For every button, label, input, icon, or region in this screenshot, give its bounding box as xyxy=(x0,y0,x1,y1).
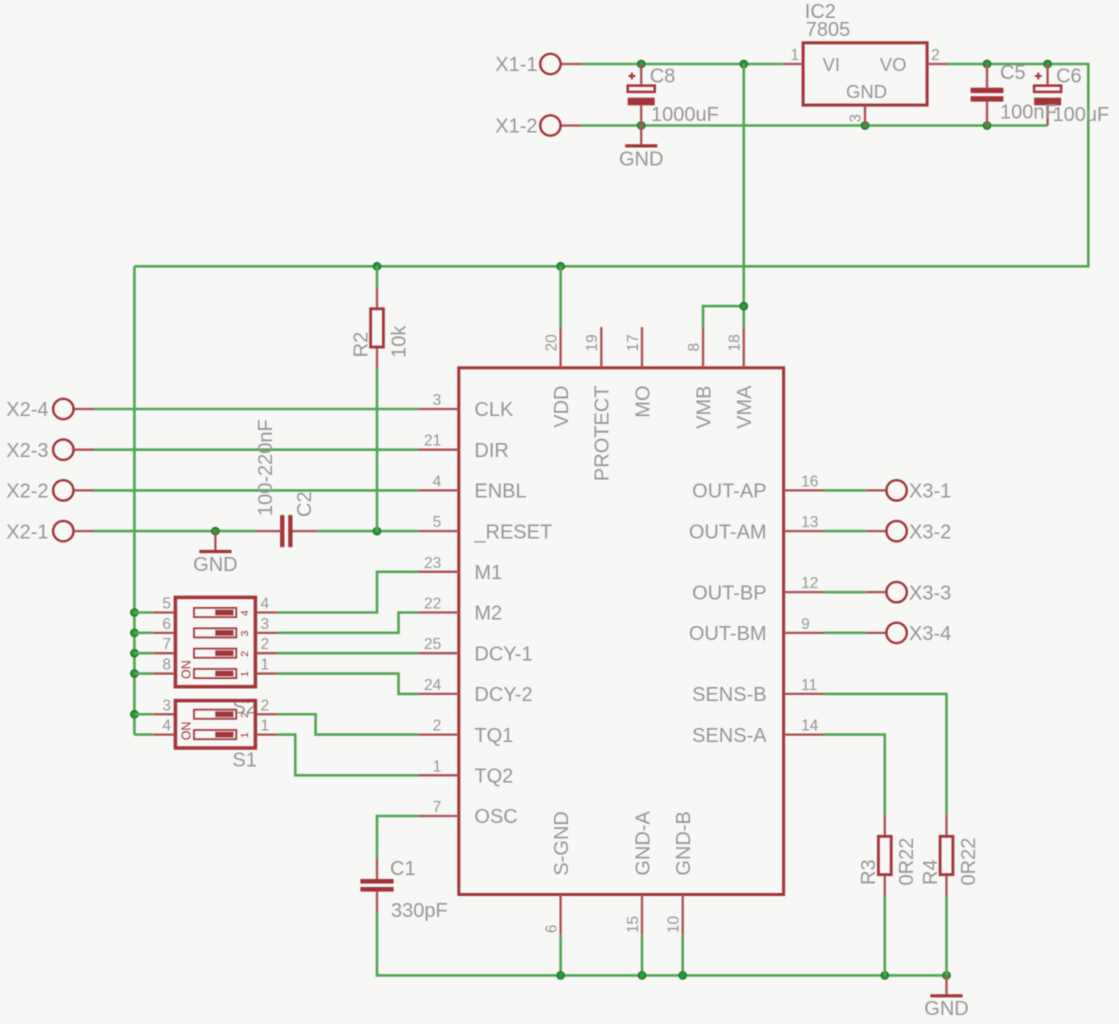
svg-text:21: 21 xyxy=(424,433,441,450)
svg-text:OUT-AM: OUT-AM xyxy=(689,521,767,543)
wire SENS-B pin 11 to R4 top xyxy=(824,694,946,815)
pin 8 VMB xyxy=(702,327,704,368)
svg-text:3: 3 xyxy=(239,630,251,636)
capacitor C1 330pF xyxy=(360,858,447,922)
svg-text:16: 16 xyxy=(801,473,818,490)
svg-text:C8: C8 xyxy=(650,66,676,88)
pin 5 _RESET xyxy=(418,530,459,532)
connector pin X3-1 xyxy=(866,480,951,502)
wire OSC pin 7 to C1 top xyxy=(377,816,418,858)
capacitor C2 100-220nF (series in _RESET line) xyxy=(255,419,317,547)
svg-text:C5: C5 xyxy=(1000,62,1026,84)
connector pin X2-2 xyxy=(6,480,94,502)
svg-text:1000uF: 1000uF xyxy=(651,104,719,126)
svg-text:0R22: 0R22 xyxy=(958,838,980,886)
svg-text:19: 19 xyxy=(584,334,601,351)
svg-text:1: 1 xyxy=(433,758,442,775)
pin 23 M1 xyxy=(418,571,459,573)
svg-text:ENBL: ENBL xyxy=(474,481,526,503)
svg-text:VDD: VDD xyxy=(551,386,573,428)
ground symbol at C2/X2-1 xyxy=(193,531,237,576)
S2 left pin 8 xyxy=(153,672,173,674)
svg-text:X3-4: X3-4 xyxy=(909,623,951,645)
svg-text:CLK: CLK xyxy=(474,399,514,421)
svg-text:M2: M2 xyxy=(474,603,502,625)
svg-text:C6: C6 xyxy=(1056,66,1082,88)
svg-text:ON: ON xyxy=(180,722,194,741)
svg-text:C1: C1 xyxy=(390,858,416,880)
svg-text:M1: M1 xyxy=(474,562,502,584)
svg-text:3: 3 xyxy=(162,697,171,714)
S2 right pin 4 xyxy=(257,611,277,613)
S1 switch element 1 xyxy=(194,730,236,739)
svg-text:100uF: 100uF xyxy=(1053,104,1110,126)
svg-text:VO: VO xyxy=(880,54,907,75)
svg-text:GND: GND xyxy=(846,81,887,102)
svg-text:1: 1 xyxy=(261,657,270,674)
svg-text:1: 1 xyxy=(239,732,251,738)
wire GND net top: X1-2 across to C6 bottom xyxy=(581,122,1048,129)
capacitor C6 100uF (polarized) xyxy=(1034,64,1109,126)
svg-text:C2: C2 xyxy=(294,491,316,517)
svg-text:X3-1: X3-1 xyxy=(909,481,951,503)
S2 left pin 6 xyxy=(153,632,173,634)
pin 14 SENS-A xyxy=(784,733,825,735)
svg-text:X1-2: X1-2 xyxy=(495,116,537,138)
S1 right pin 2 xyxy=(257,713,277,715)
DIP switch S2 (4 position) xyxy=(153,596,277,719)
svg-text:OUT-AP: OUT-AP xyxy=(692,481,766,503)
svg-text:2: 2 xyxy=(261,697,270,714)
pin 15 GND-A xyxy=(641,895,643,936)
wire SENS-A pin 14 to R3 top xyxy=(824,735,885,815)
svg-text:17: 17 xyxy=(625,334,642,351)
wire X2-3 to DIR xyxy=(93,448,418,451)
pin 18 VMA xyxy=(743,327,745,368)
svg-text:10k: 10k xyxy=(388,325,410,358)
wire R3 bottom to ground rail xyxy=(883,896,886,976)
pin 2 TQ1 xyxy=(418,733,459,735)
S1 body xyxy=(175,701,255,748)
svg-text:VI: VI xyxy=(823,54,840,75)
svg-text:25: 25 xyxy=(424,636,441,653)
pin 22 M2 xyxy=(418,611,459,613)
S2 switch element 2 xyxy=(194,649,236,658)
capacitor C5 100nF xyxy=(971,62,1057,126)
S1 switch element 2 xyxy=(194,710,236,719)
wire C2 right to _RESET pin 5, with R2 tap xyxy=(317,528,418,535)
svg-text:GND-B: GND-B xyxy=(673,811,695,875)
S1 left pin 3 xyxy=(153,713,173,715)
pin 1 TQ2 xyxy=(418,774,459,776)
svg-text:2: 2 xyxy=(239,712,251,718)
pin 6 S-GND xyxy=(559,895,561,936)
pin 4 ENBL xyxy=(418,489,459,491)
svg-text:TQ2: TQ2 xyxy=(474,766,513,788)
svg-text:100nF: 100nF xyxy=(1000,102,1057,124)
pin 25 DCY-1 xyxy=(418,652,459,654)
svg-text:DIR: DIR xyxy=(474,440,508,462)
connector pin X2-3 xyxy=(6,440,94,462)
svg-text:12: 12 xyxy=(801,575,818,592)
svg-text:4: 4 xyxy=(261,596,270,613)
svg-text:6: 6 xyxy=(162,616,171,633)
svg-text:330pF: 330pF xyxy=(391,900,448,922)
wire left +5V rail down to DIP switches xyxy=(131,266,138,734)
S2 left pin 7 xyxy=(153,652,173,654)
S2 left pin 5 xyxy=(153,611,173,613)
wire +5V to VDD pin 20 xyxy=(559,266,562,327)
S2 right pin 2 xyxy=(257,652,277,654)
svg-text:GND-A: GND-A xyxy=(632,810,654,875)
wire OUT-BP to X3-3 xyxy=(824,591,866,594)
wire X2-1 to C2 left, with GND tap xyxy=(93,528,256,535)
wire +5V to R2 top xyxy=(376,266,379,287)
wire X2-4 to CLK xyxy=(93,408,418,411)
svg-text:OUT-BM: OUT-BM xyxy=(689,623,767,645)
svg-text:7: 7 xyxy=(433,799,442,816)
wire R4 bottom to ground rail xyxy=(945,896,948,976)
S2 switch element 3 xyxy=(194,628,236,637)
svg-text:24: 24 xyxy=(424,677,442,694)
DIP switch S1 (2 position) xyxy=(153,697,277,771)
wire R2 bottom to _RESET net xyxy=(376,369,379,531)
svg-text:PROTECT: PROTECT xyxy=(592,386,614,482)
pin 7 OSC xyxy=(418,815,459,817)
connector pin X1-2 xyxy=(495,115,581,137)
S2 switch element 4 xyxy=(194,608,236,617)
wire S2 pin4 to M1 pin 23 xyxy=(278,572,419,613)
svg-text:R4: R4 xyxy=(920,859,942,885)
wire X2-2 to ENBL xyxy=(93,489,418,492)
stepper driver IC (main symbol) xyxy=(418,327,824,935)
pin 10 GND-B xyxy=(682,895,684,936)
wire S2 pin2 to DCY-1 pin 25 xyxy=(278,652,419,655)
wire S2 pin1 to DCY-2 pin 24 xyxy=(278,674,419,694)
svg-text:11: 11 xyxy=(801,677,817,694)
connector pin X2-4 xyxy=(6,399,94,421)
pin 24 DCY-2 xyxy=(418,693,459,695)
S2 right pin 3 xyxy=(257,632,277,634)
svg-text:8: 8 xyxy=(162,657,171,674)
svg-text:_RESET: _RESET xyxy=(473,521,552,543)
connector pin X2-1 xyxy=(6,521,94,543)
S1 left pin 4 xyxy=(153,733,173,735)
resistor R2 10k xyxy=(350,287,410,369)
pin 12 OUT-BP xyxy=(784,591,825,593)
svg-text:X2-3: X2-3 xyxy=(6,440,48,462)
svg-text:GND: GND xyxy=(924,998,968,1020)
wire S1 pin1 to TQ2 pin 1 xyxy=(278,735,419,776)
wire OUT-AP to X3-1 xyxy=(824,489,866,492)
svg-text:0R22: 0R22 xyxy=(896,838,918,886)
svg-text:MO: MO xyxy=(632,386,654,418)
pin 20 VDD xyxy=(559,327,561,368)
S2 right pin 1 xyxy=(257,672,277,674)
wire VM net: vertical to VMA pin 18 and branch to VMB pin 8 xyxy=(703,64,747,327)
svg-text:X2-2: X2-2 xyxy=(6,481,48,503)
connector pin X3-2 xyxy=(866,521,951,543)
svg-text:SENS-A: SENS-A xyxy=(692,725,767,747)
IC2 pin 1 VI xyxy=(783,63,803,65)
IC2 pin 3 GND xyxy=(864,105,866,125)
svg-text:3: 3 xyxy=(261,616,270,633)
svg-text:R2: R2 xyxy=(350,332,372,358)
svg-text:15: 15 xyxy=(625,916,642,933)
svg-text:9: 9 xyxy=(801,616,810,633)
svg-text:13: 13 xyxy=(801,514,818,531)
wire OUT-BM to X3-4 xyxy=(824,632,866,635)
svg-text:22: 22 xyxy=(424,596,441,613)
voltage regulator IC2 7805 xyxy=(783,1,948,126)
pin 21 DIR xyxy=(418,449,459,451)
svg-text:1: 1 xyxy=(239,671,251,677)
svg-text:X3-2: X3-2 xyxy=(909,521,951,543)
connector pin X1-1 xyxy=(495,54,581,76)
wire branches from left rail to S2 pins 5-8 and S1 pins 3-4 xyxy=(134,613,153,735)
S1 right pin 1 xyxy=(257,733,277,735)
wire bottom ground rail from C1 to GND, taps at pins 6,15,10 and R3,R4 xyxy=(377,912,950,979)
svg-text:GND: GND xyxy=(619,148,663,170)
svg-text:18: 18 xyxy=(727,334,744,351)
pin 9 OUT-BM xyxy=(784,632,825,634)
svg-text:2: 2 xyxy=(239,651,251,657)
pin 13 OUT-AM xyxy=(784,530,825,532)
svg-text:VMB: VMB xyxy=(693,386,715,429)
connector pin X3-3 xyxy=(866,582,951,604)
svg-text:10: 10 xyxy=(666,915,683,933)
svg-text:GND: GND xyxy=(193,554,237,576)
svg-text:4: 4 xyxy=(162,718,171,735)
wire S1 pin2 to TQ1 pin 2 xyxy=(278,714,419,734)
ground symbol at C8 xyxy=(619,126,663,171)
svg-text:7: 7 xyxy=(162,636,171,653)
pin 11 SENS-B xyxy=(784,693,825,695)
svg-text:SENS-B: SENS-B xyxy=(692,684,766,706)
resistor R4 0R22 xyxy=(920,815,980,897)
svg-text:OUT-BP: OUT-BP xyxy=(692,582,766,604)
svg-text:1: 1 xyxy=(261,718,270,735)
svg-text:R3: R3 xyxy=(858,859,880,885)
S2 body xyxy=(175,597,255,686)
svg-text:2: 2 xyxy=(931,47,940,64)
svg-text:7805: 7805 xyxy=(806,19,851,41)
svg-text:VMA: VMA xyxy=(734,385,756,429)
svg-text:5: 5 xyxy=(433,514,442,531)
svg-text:3: 3 xyxy=(433,392,442,409)
svg-text:5: 5 xyxy=(162,596,171,613)
svg-text:DCY-1: DCY-1 xyxy=(474,643,532,665)
svg-text:8: 8 xyxy=(686,343,703,352)
svg-text:S-GND: S-GND xyxy=(551,811,573,875)
svg-text:4: 4 xyxy=(239,610,251,616)
svg-text:X1-1: X1-1 xyxy=(495,54,537,76)
pin 3 CLK xyxy=(418,408,459,410)
svg-text:100-220nF: 100-220nF xyxy=(255,419,277,516)
svg-text:ON: ON xyxy=(180,660,194,679)
capacitor C8 1000uF (polarized) xyxy=(628,64,719,126)
svg-text:TQ1: TQ1 xyxy=(474,725,513,747)
svg-text:6: 6 xyxy=(543,924,560,933)
svg-text:4: 4 xyxy=(433,473,442,490)
connector pin X3-4 xyxy=(866,623,951,645)
wire VIN net: X1-1 to IC2 pin1, with taps to C8 and VM rail xyxy=(581,60,783,67)
pin 19 PROTECT xyxy=(600,327,602,368)
wire OUT-AM to X3-2 xyxy=(824,530,866,533)
svg-text:X2-4: X2-4 xyxy=(6,399,48,421)
svg-text:23: 23 xyxy=(424,555,441,572)
resistor R3 0R22 xyxy=(858,815,918,897)
ground symbol at bottom right xyxy=(924,975,968,1020)
svg-text:2: 2 xyxy=(261,636,270,653)
svg-text:X3-3: X3-3 xyxy=(909,582,951,604)
svg-text:20: 20 xyxy=(543,334,560,352)
svg-text:1: 1 xyxy=(790,47,799,64)
svg-text:OSC: OSC xyxy=(474,806,517,828)
pin 17 MO xyxy=(641,327,643,368)
svg-text:X2-1: X2-1 xyxy=(6,521,48,543)
svg-text:14: 14 xyxy=(801,718,819,735)
svg-text:S1: S1 xyxy=(232,750,256,772)
IC2 pin 2 VO xyxy=(927,63,947,65)
wire S2 pin3 to M2 pin 22 xyxy=(278,613,419,633)
svg-text:2: 2 xyxy=(433,718,442,735)
svg-text:DCY-2: DCY-2 xyxy=(474,684,532,706)
wire +5V net: 7805 VO right, down right edge, rail to left edge xyxy=(134,60,1088,270)
svg-text:3: 3 xyxy=(848,114,865,123)
S2 switch element 1 xyxy=(194,669,236,678)
pin 16 OUT-AP xyxy=(784,489,825,491)
